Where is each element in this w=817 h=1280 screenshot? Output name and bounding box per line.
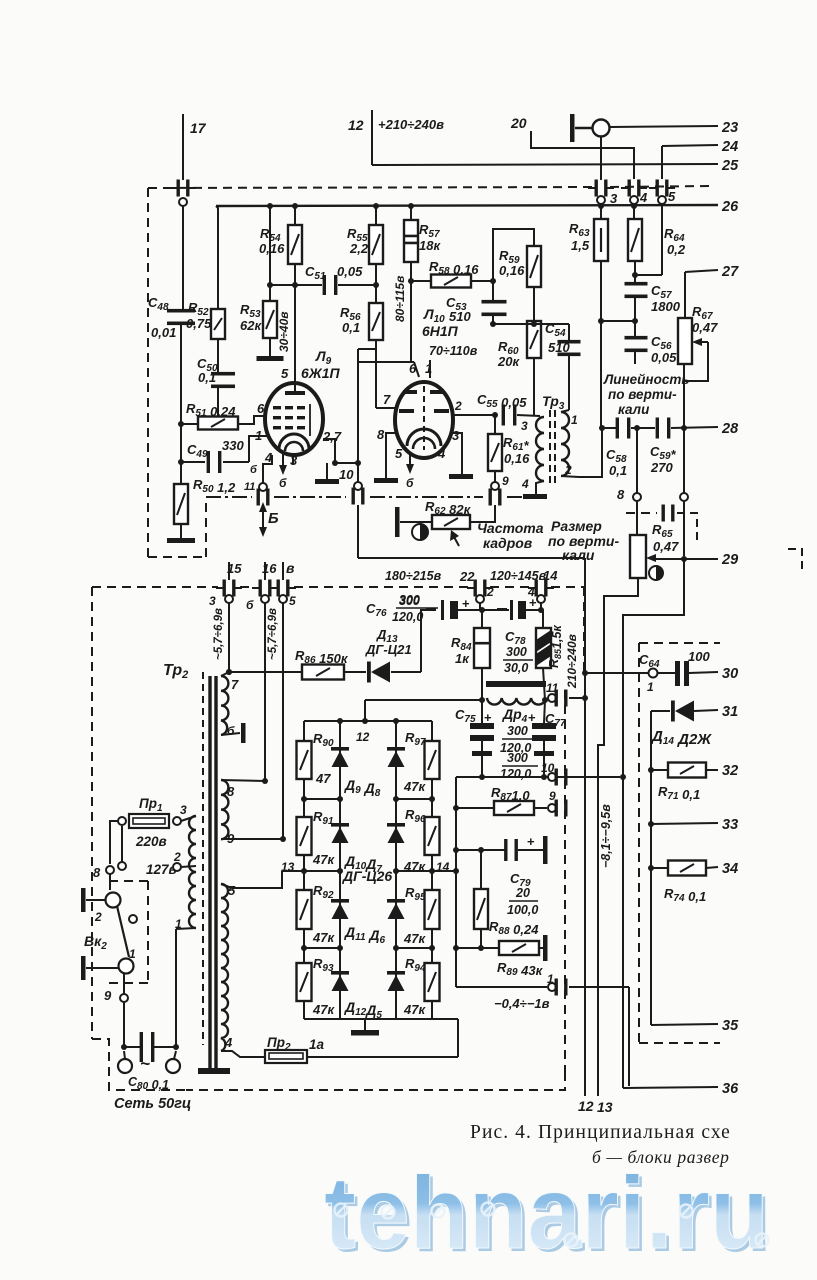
dashed boundary left vertical [147,188,149,557]
ground under L9 [315,479,339,484]
wire pin 1 primary [176,928,196,929]
svg-text:б: б [246,598,254,612]
wire Pr2 to bridge return [307,1056,458,1058]
svg-text:Б: Б [268,510,279,527]
wire up to pin 1 [175,929,177,1047]
wire R67 branch down [683,428,685,556]
dash-dot boundary segment [206,496,252,498]
node C77 bottom [541,774,547,780]
node C75 bottom [479,774,485,780]
wire pin 3 stub [292,455,294,464]
terminal circle C64 [649,669,658,678]
wire row 14 [396,870,456,872]
dash-dot boundary segment 3 [370,496,483,498]
svg-text:кадров: кадров [483,535,533,551]
svg-text:15: 15 [227,561,242,576]
node pin 8 [262,778,268,784]
svg-text:14: 14 [436,860,450,874]
chassis bar pin b [241,723,246,743]
feedthrough at 1 [555,979,568,996]
wire stub &#1074; [282,562,284,580]
svg-text:Рис. 4. Принципиальная схе: Рис. 4. Принципиальная схе [470,1122,731,1143]
wire from terminal 4 [540,603,542,610]
transformer Tr3 core [550,410,555,486]
dashed block boundary top [148,187,592,188]
node R53 top [267,282,273,288]
terminal circle 3 [225,595,233,603]
wire R85 to choke right [543,668,545,700]
svg-text:0,16: 0,16 [499,263,525,278]
wire up to C76 row [421,610,431,672]
wire line 36 [623,1087,718,1088]
wire bridge ground stub [364,1019,366,1030]
svg-text:+: + [527,834,535,849]
wire R89 row [456,947,499,949]
wire R87 right [534,807,547,809]
resistor R59 [527,246,541,287]
wire to plug left [124,1051,125,1059]
wire row 9 left [456,807,494,809]
wire R60 to anode row [533,358,535,416]
wire 9 down [123,1002,125,1047]
terminal circle 8 [633,493,641,501]
svg-text:8: 8 [93,865,101,880]
ground left under L10 [374,478,398,483]
resistor R50 [174,484,188,524]
wire R63 down to line 28 [600,261,602,428]
fraction bar C76 [396,607,438,609]
node row 14 right [453,868,459,874]
resistor R86 [302,665,344,680]
node 13 left [301,868,307,874]
feedthrough capacitor 16 [252,580,278,597]
svg-text:26: 26 [721,199,739,215]
node d8-col c [393,945,399,951]
svg-text:28: 28 [721,421,739,437]
wire R53 to ground [269,338,271,356]
diode D9 [331,747,349,767]
wire pin8 ground stem [385,463,387,478]
node R64 bottom [632,272,638,278]
wire to R84 [481,610,483,628]
resistor R74 [668,861,706,876]
wire 27 [685,270,718,272]
wire D13 right [391,671,421,673]
dash-dot boundary segment 2 [274,496,346,498]
resistor R54 [288,225,302,264]
wire C51 left [270,284,322,286]
svg-text:16: 16 [262,561,277,576]
wire C49 right [223,461,249,463]
svg-text:47к: 47к [403,779,426,794]
svg-text:30÷40в: 30÷40в [277,311,291,352]
wiper arrow R65 [646,554,656,562]
wire pin 5 to line 13 [221,871,282,888]
wire R67 wiper to bottom [684,342,708,381]
svg-text:R86 150к: R86 150к [295,648,349,666]
switch pole circle lower [119,959,134,974]
resistor R55 [369,225,383,264]
feedthrough capacitor &#1074; [270,580,296,597]
svg-text:47к: 47к [312,1002,335,1017]
resistor R91 [297,817,312,855]
svg-text:510: 510 [449,309,471,324]
watermark registered mark [565,1234,578,1247]
wire pin 8 [221,780,265,781]
svg-text:36: 36 [722,1081,739,1097]
node C80 left [121,1044,127,1050]
wire to R85 [526,609,541,611]
dashed block boundary top right [610,186,712,187]
svg-text:0,1: 0,1 [609,463,627,478]
dashed boundary bottom jog [148,556,206,558]
wire bridge bottom rail [304,1018,458,1020]
svg-text:R93: R93 [313,956,334,974]
wire row terminal 10 [456,776,620,778]
terminal circle 3 [597,196,605,204]
dashed lower box left [91,587,93,1039]
ground under R53 [257,356,284,361]
terminal bar C79 [543,836,548,864]
node R74 [648,865,654,871]
wire Pr1 left down [110,821,118,864]
svg-text:б: б [406,476,414,490]
vacuum tube L10 6N1P [395,382,453,458]
terminal circle &#1073; [261,595,269,603]
svg-text:−8,1÷−9,5в: −8,1÷−9,5в [599,804,613,868]
resistor R57 [404,220,418,262]
svg-text:33: 33 [722,817,738,833]
ground under Tr3 [523,494,547,499]
wire R89 right [539,947,543,949]
svg-text:29: 29 [721,552,738,568]
svg-text:~: ~ [140,1054,150,1073]
wire pin 9 [221,838,283,840]
feedthrough on boundary at 9 [489,489,502,506]
svg-text:20к: 20к [497,354,520,369]
wire diode column right [395,721,397,1019]
circle tap 127v left [118,862,126,870]
svg-text:7: 7 [383,392,391,407]
wire pin 6 jog into L10 [414,362,419,377]
wire to C54 [568,324,570,341]
wire from line 29 down (-8,1v) [623,559,684,1088]
node between C58 C59 [634,425,640,431]
resistor R61* [488,434,502,471]
ground bar bridge [351,1030,379,1036]
node on R63 wire [598,318,604,324]
terminal circle 11 [548,694,556,702]
svg-text:9: 9 [227,831,235,846]
svg-text:8: 8 [377,427,385,442]
feedthrough capacitor 15 [216,580,242,597]
svg-text:Д14 Д2Ж: Д14 Д2Ж [650,728,712,748]
svg-text:C55 0,05: C55 0,05 [477,392,527,410]
wire R92-R93 [303,929,305,963]
svg-text:~5,7÷6,9в: ~5,7÷6,9в [267,608,279,660]
wire 9 to R62 [494,505,496,523]
svg-text:5: 5 [395,446,403,461]
svg-text:Частота: Частота [477,520,544,536]
svg-text:Вк2: Вк2 [84,933,107,952]
svg-text:ДГ-Ц26: ДГ-Ц26 [342,868,392,884]
wire to terminal 11 [545,699,548,700]
feedthrough capacitor 5 [649,180,675,197]
feedthrough at 11 [555,690,568,707]
wire circle to C64 [658,672,675,674]
svg-text:47к: 47к [403,1002,426,1017]
svg-text:1800: 1800 [651,299,681,314]
wire to R85 [542,610,544,628]
Tr2 winding 5-4 [221,884,228,1051]
node row a left [301,796,307,802]
svg-text:R88 0,24: R88 0,24 [489,919,539,937]
wire 3 to R63 [600,204,602,219]
wire line 35 [651,1024,718,1025]
wire to R56 [375,285,377,303]
wire left column lower block [455,777,457,987]
svg-text:300: 300 [507,751,528,765]
node 14 rr [429,868,435,874]
wire C53 to C54 row [493,323,569,325]
fuse Pr1 [129,814,169,828]
svg-text:47к: 47к [312,852,335,867]
node pin 9 [280,836,286,842]
wire terminal 12 [371,110,373,165]
wire 5 down [661,204,663,275]
potentiometer R62 [432,515,470,529]
svg-text:3: 3 [180,803,187,817]
feedthrough capacitor at B [257,489,270,506]
wire stub 15 [228,562,230,580]
node line28/R67 [681,425,687,431]
resistor R97 [425,741,440,779]
wire b down [264,603,266,781]
svg-text:23: 23 [721,120,738,136]
capacitor C56 [625,336,648,352]
choke Dr4 core bar [486,681,546,687]
feedthrough capacitor 22 [467,580,493,597]
svg-text:C64: C64 [639,652,660,670]
node d-col c [337,945,343,951]
wire line 28 right [671,427,718,428]
node choke right [542,697,548,703]
svg-text:47к: 47к [312,930,335,945]
svg-text:12: 12 [356,730,370,744]
wire to R53 [269,285,271,301]
wire to R71 [651,769,668,771]
svg-text:5: 5 [281,366,289,381]
svg-text:2: 2 [564,463,572,477]
wire to C80 [124,1046,141,1048]
core line 1 Tr2 [208,676,211,1068]
core line 2 Tr2 [214,676,217,1068]
svg-text:R65: R65 [652,522,673,540]
svg-text:б: б [279,476,287,490]
wire bridge top stub [364,700,366,721]
capacitor C50 [211,372,235,388]
wire 5 down [282,603,284,839]
svg-text:+210÷240в: +210÷240в [378,117,444,132]
svg-text:270: 270 [650,460,673,475]
svg-text:6: 6 [257,401,265,416]
resistor R63 [594,219,608,261]
terminal bar R89 [543,935,548,961]
resistor R90 [297,741,312,779]
svg-text:0,75: 0,75 [186,316,212,331]
wire to R74 [651,867,668,869]
svg-text:Д11 Д6: Д11 Д6 [344,924,386,946]
svg-text:C48: C48 [148,295,169,313]
svg-text:Д9 Д8: Д9 Д8 [344,777,381,799]
svg-text:1,5: 1,5 [571,238,590,253]
wire pin 4 to fuse Pr2 [221,1051,265,1057]
svg-text:~5,7÷6,9в: ~5,7÷6,9в [213,608,225,660]
terminal bar switch lower [81,956,86,980]
svg-text:30,0: 30,0 [504,661,528,675]
svg-text:Пр1: Пр1 [139,796,163,814]
svg-text:+: + [484,710,492,725]
svg-text:R94: R94 [405,956,426,974]
svg-text:120÷145в: 120÷145в [490,569,547,583]
svg-text:120,0: 120,0 [500,767,531,781]
resistor R92 [297,890,312,929]
svg-text:47к: 47к [403,859,426,874]
wire loop to R59 [493,229,534,281]
wire stub 16 [264,562,266,580]
diode D7 [387,823,405,843]
capacitor C58 [616,418,631,439]
svg-text:0,05: 0,05 [651,350,677,365]
capacitor C64 [675,661,689,686]
capacitor C80 [140,1032,155,1062]
wire link row c right [396,947,432,949]
switch pole circle upper [106,893,121,908]
svg-text:0,16: 0,16 [259,241,285,256]
Tr2 winding 8-9 [221,780,228,839]
diode D12 [331,971,349,991]
double arrow terminal B [259,502,267,537]
dashed corner segment [677,513,697,541]
wire 23 horizontal [610,126,718,127]
wire pole lower down [123,973,125,994]
wire R90-R91 [303,779,305,817]
svg-text:Д12Д5: Д12Д5 [344,999,382,1021]
node top rail d8-col [393,718,399,724]
svg-text:120,0: 120,0 [392,610,423,624]
svg-text:70÷110в: 70÷110в [429,344,478,358]
wire to pole upper [86,899,105,901]
svg-text:127в: 127в [146,862,177,877]
arrow heater pin b of L9 [279,452,287,475]
svg-text:C51: C51 [305,264,326,282]
svg-text:32: 32 [722,763,738,779]
diode D6 [387,899,405,919]
svg-text:47к: 47к [403,931,426,946]
wire bridge top rail [304,720,432,722]
wire 12 vertical [584,558,586,1096]
resistor R95 [425,890,440,929]
node R88 top [478,847,484,853]
wire rail to R54 [294,206,296,225]
node C57/C56 [632,318,638,324]
node choke left [479,697,485,703]
plug circle right [166,1059,180,1073]
junction on rail 26 [631,203,637,209]
node row c rr [429,945,435,951]
resistor R51 [198,417,238,430]
wire right block left column [650,711,652,1025]
wire tube pins 2,7 down [323,439,335,463]
svg-text:R92: R92 [313,883,334,901]
feedthrough capacitor 14 [528,580,554,597]
terminal circle 2 [476,595,484,603]
wire rail to R57 [410,206,412,220]
node d-col 13 [337,868,343,874]
svg-text:Сеть 50гц: Сеть 50гц [114,1096,191,1112]
resistor R53 [263,301,277,338]
terminal circle 5 [658,196,666,204]
dashed corner segment right [788,549,802,572]
wire to R90 [303,721,305,741]
svg-text:1: 1 [647,680,654,694]
svg-text:2,7: 2,7 [322,429,342,444]
terminal circle 4 [630,196,638,204]
node cathode L9 [332,460,338,466]
wire 13 from R65 bottom [598,578,638,1096]
svg-text:510: 510 [548,340,570,355]
circle Pr1 left [118,817,126,825]
svg-text:9: 9 [104,988,112,1003]
wire to R51 [181,423,199,425]
wire to R62 [400,521,433,523]
svg-text:кали: кали [618,402,650,417]
wire C50 to R51 [217,385,219,417]
wire to R97 [431,721,433,741]
svg-text:31: 31 [722,704,738,720]
junction on rail 26 [408,203,414,209]
svg-text:300: 300 [399,593,420,607]
svg-text:4: 4 [521,477,529,491]
wire line 31 [694,710,718,711]
svg-text:27: 27 [721,264,739,280]
feedthrough capacitor 4 [621,180,647,197]
dashed lower box right lower [564,690,566,1072]
circle tap 127v right [173,863,181,871]
svg-text:б: б [250,464,258,476]
svg-text:по верти-: по верти- [608,387,677,402]
svg-text:7: 7 [231,677,239,692]
watermark registered mark [482,1203,495,1216]
wire R95-R94 [431,929,433,963]
arrow heater pin 9 of L10 [406,452,414,474]
svg-text:Тр3: Тр3 [542,393,565,412]
choke Dr4 winding [487,698,546,705]
electrolytic C78 input [497,600,526,620]
svg-text:220в: 220в [135,834,167,849]
node R71 [648,767,654,773]
svg-text:20: 20 [510,115,527,131]
node wire12/C64 [582,670,588,676]
svg-text:300: 300 [507,724,528,738]
svg-text:+: + [462,596,470,611]
node row 9 [453,805,459,811]
svg-text:С76: С76 [366,601,387,619]
wire rail 26 [216,205,718,206]
ground under R50 [167,538,195,543]
junction on rail 26 [373,203,379,209]
resistor R64 [628,219,642,261]
